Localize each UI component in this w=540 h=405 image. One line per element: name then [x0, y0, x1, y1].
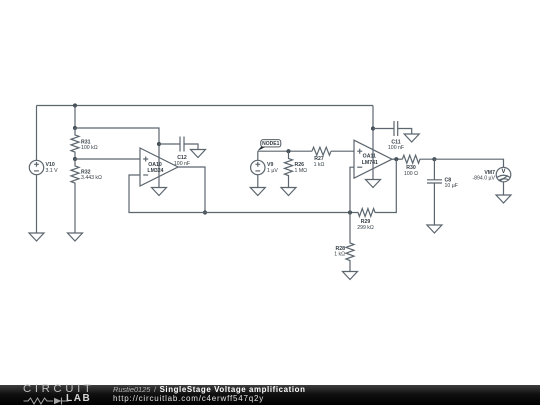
- OA11 minus input pin mark: [357, 166, 362, 168]
- wire: C12 right lead: [184, 144, 198, 150]
- ground: C8: [427, 225, 442, 233]
- wire: OA10 output: [178, 167, 205, 213]
- wire: to C11 left plate: [373, 128, 394, 130]
- svg-text:V: V: [501, 169, 505, 175]
- voltage source V10: [29, 160, 43, 174]
- ground: V9: [250, 188, 265, 196]
- wire: OA11 supply riser: [372, 106, 374, 180]
- wire: V10 top riser: [36, 106, 38, 161]
- op-amp U OA10 triangle: [140, 148, 178, 186]
- CircuitLab logo second row: resistor squiggle + diode symbol: [23, 397, 69, 405]
- wire: R27 to OA11 noninverting input: [331, 150, 354, 152]
- wire: top supply rail: [37, 105, 374, 107]
- ground: OA11 negative supply: [366, 180, 381, 188]
- wire: to OA11 inverting input: [350, 167, 354, 212]
- wire: OA10 feedback loop: [129, 175, 205, 213]
- junction: R31 top / opamp supply branch: [73, 126, 77, 130]
- ground: C12: [191, 150, 206, 158]
- junction: R26 top: [286, 149, 290, 153]
- svg-text:100 nF: 100 nF: [388, 145, 404, 151]
- wire: OA11 output stub: [392, 158, 402, 160]
- wire: to OA10 noninverting input: [75, 158, 140, 160]
- wire: C11 right lead: [398, 129, 412, 135]
- ground: VM7: [496, 195, 511, 203]
- junction: divider midpoint: [73, 157, 77, 161]
- CircuitLab logo word CIRCUIT: [23, 383, 94, 395]
- OA11 plus input pin mark: [357, 149, 362, 154]
- wire: C8 top lead: [433, 159, 435, 180]
- ground: C11: [404, 134, 419, 142]
- capacitor C12: [180, 137, 184, 152]
- resistor R26: [285, 151, 293, 187]
- wire: NODE1 net: [258, 150, 312, 152]
- wire: C8 bottom lead: [433, 183, 435, 225]
- wire: to C12 left plate: [159, 143, 180, 145]
- resistor R28: [346, 213, 354, 272]
- junction: rail / divider node: [73, 103, 77, 107]
- svg-text:LM741: LM741: [362, 160, 378, 166]
- ground: OA10 negative supply: [152, 188, 167, 196]
- CircuitLab logo word LAB: [66, 393, 91, 404]
- wire: divider riser: [74, 106, 76, 129]
- node NODE1 flag: [258, 140, 281, 151]
- resistor R30: [402, 155, 434, 163]
- wire: V9 top riser: [257, 151, 259, 160]
- resistor R27: [312, 147, 331, 155]
- resistor R31: [71, 128, 79, 159]
- voltage source V9: [251, 160, 265, 174]
- capacitor C11: [394, 121, 398, 136]
- wire: V9 bottom lead: [257, 175, 259, 188]
- OA10 minus input pin mark: [143, 174, 148, 176]
- wire: R32 bottom lead: [74, 191, 76, 233]
- svg-text:100 Ω: 100 Ω: [404, 171, 418, 177]
- wire: VM7 bottom lead: [503, 182, 505, 195]
- wire: output to voltmeter: [434, 159, 503, 167]
- svg-text:1 µV: 1 µV: [267, 168, 278, 174]
- junction: output filter node: [432, 157, 436, 161]
- svg-text:1 kΩ: 1 kΩ: [314, 162, 325, 168]
- wire: OA10 supply rail branch: [75, 128, 159, 188]
- voltmeter VM7: [496, 167, 511, 182]
- svg-text:299 kΩ: 299 kΩ: [357, 225, 374, 231]
- svg-text:NODE1: NODE1: [262, 141, 279, 147]
- svg-text:-894.0 µV: -894.0 µV: [472, 175, 495, 181]
- svg-text:LM324: LM324: [147, 168, 163, 174]
- svg-text:OA11: OA11: [363, 154, 376, 160]
- ground: R26: [281, 188, 296, 196]
- junction: OA11 output node: [394, 157, 398, 161]
- wire: feedback riser from output: [375, 159, 396, 212]
- junction: OA11 supply / C11 branch: [371, 126, 375, 130]
- svg-text:100 nF: 100 nF: [174, 161, 190, 167]
- wire: V10 bottom lead: [36, 175, 38, 233]
- svg-text:10 µF: 10 µF: [445, 183, 458, 189]
- capacitor C8: [427, 180, 442, 183]
- junction: OA10 output to bus: [203, 210, 207, 214]
- resistor R32: [71, 159, 79, 191]
- ground: R32: [68, 233, 83, 241]
- footer title text: [113, 385, 306, 394]
- resistor R29: [350, 209, 375, 217]
- footer bar: [0, 385, 540, 405]
- svg-text:3.443 kΩ: 3.443 kΩ: [81, 175, 102, 181]
- junction: OA10 supply / C12 branch: [157, 142, 161, 146]
- op-amp U OA11 triangle: [354, 140, 392, 178]
- svg-text:OA10: OA10: [148, 162, 162, 168]
- svg-text:1 MΩ: 1 MΩ: [295, 168, 308, 174]
- svg-text:3.1 V: 3.1 V: [46, 168, 59, 174]
- junction: feedback divider node: [348, 210, 352, 214]
- svg-text:1 kΩ: 1 kΩ: [334, 252, 345, 258]
- OA10 plus input pin mark: [143, 157, 148, 162]
- wire: stage interconnect bus: [205, 212, 350, 214]
- ground: R28: [343, 272, 358, 280]
- ground: V10: [29, 233, 44, 241]
- footer url text: [113, 394, 264, 403]
- svg-text:100 kΩ: 100 kΩ: [81, 145, 98, 151]
